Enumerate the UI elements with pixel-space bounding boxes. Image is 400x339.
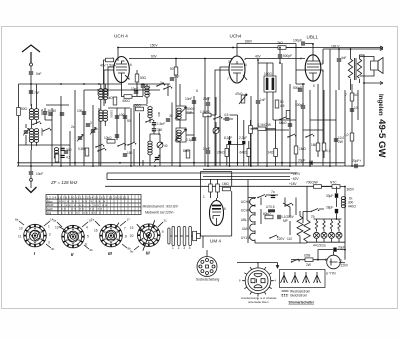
mains plug 220V [325,252,349,276]
svg-text:20kΩ: 20kΩ [217,151,225,155]
coil osc4 [148,141,152,155]
switch right [305,134,314,138]
svg-text:7: 7 [227,77,229,81]
switch heater [257,195,278,199]
svg-text:1b: 1b [147,92,151,96]
svg-text:60V: 60V [151,55,158,59]
svg-text:2a: 2a [311,215,315,219]
svg-text:5: 5 [313,84,315,88]
svg-text:8,2μF: 8,2μF [224,136,232,140]
wire power loop [318,247,345,260]
svg-text:U YTN: U YTN [326,272,336,276]
svg-text:+18V: +18V [289,182,297,186]
wire chassis link [237,263,279,269]
legend gleichstrom [282,294,308,298]
switch 2a [303,209,324,224]
svg-text:4,5: 4,5 [224,113,229,117]
capacitor 7nF [29,90,40,95]
capacitor 20uF lower [330,246,345,252]
resistor 16k [311,143,320,151]
svg-text:8: 8 [196,89,198,93]
svg-text:50: 50 [127,119,131,123]
svg-text:47kΩ: 47kΩ [235,92,243,96]
svg-text:20000: 20000 [40,128,44,136]
svg-text:7a: 7a [271,190,275,194]
capacitor det2 [288,123,292,126]
wire 188V line [237,43,296,45]
wires det extra [208,97,276,167]
capacitor 28uF [326,206,338,220]
capacitor 10nF if line [185,97,196,104]
resistor 0.1M W [258,123,271,131]
svg-text:10nF: 10nF [203,147,210,151]
capacitor 10nF det [203,147,210,154]
resistor 4k [107,96,117,105]
svg-text:ZF = 128 kHz: ZF = 128 kHz [50,180,78,185]
svg-text:10nF: 10nF [185,97,192,101]
svg-text:33μF: 33μF [326,194,333,198]
svg-text:2: 2 [325,258,327,262]
svg-text:1,5MΩ: 1,5MΩ [200,110,210,114]
svg-text:Meßwerte bei 220V~: Meßwerte bei 220V~ [145,211,175,215]
svg-text:Rot: Rot [47,211,52,215]
svg-text:440Ω: 440Ω [348,205,356,209]
resistor 1M b [286,111,290,119]
svg-text:2,2μF: 2,2μF [239,136,247,140]
resistor 50 4.5 [275,100,284,108]
rotary switch III [94,223,127,257]
svg-text:Meßinstrument : 833 Ω/V: Meßinstrument : 833 Ω/V [143,205,179,209]
capacitor 3pF bottom [60,148,68,152]
svg-text:−62V: −62V [291,177,299,181]
resistor 50 ohm plate [135,70,146,96]
capacitor 33uF [326,187,338,208]
svg-text:4kΩ: 4kΩ [107,96,113,100]
svg-text:6.: 6. [340,259,343,263]
pot volume [213,128,219,134]
svg-text:1: 1 [203,195,205,199]
resistor um4 b [216,179,220,198]
choke Dr 300 440 [341,197,356,209]
resistor 1.5M horizontal [200,110,216,117]
svg-text:unterseite löten: unterseite löten [248,300,269,304]
capacitor 50pF mix [123,115,131,123]
label 365V [345,187,355,248]
capacitor 500pF top [278,48,292,64]
svg-text:3: 3 [48,241,50,245]
rotary switch leader annotations [19,221,163,250]
svg-text:1: 1 [172,246,174,250]
heater chain [241,198,255,244]
svg-text:U70,5: U70,5 [266,205,275,209]
capacitor 1.5nF [152,122,165,126]
coil mixer1 primary and secondary [99,84,108,110]
ground with 10nF [26,166,44,193]
svg-text:7: 7 [300,57,302,61]
svg-text:64kΩ: 64kΩ [240,151,248,155]
svg-text:10nF: 10nF [36,172,43,176]
main chassis buses [17,165,364,167]
svg-text:UY1N: UY1N [241,236,250,240]
rotary switch I [18,224,51,256]
svg-text:500pF: 500pF [293,86,302,90]
svg-text:16: 16 [94,229,98,233]
svg-text:20μF: 20μF [338,246,345,250]
right column resistors [345,84,358,166]
urdox resistor [266,205,275,212]
trimmer mixer2 [77,134,83,141]
svg-text:20: 20 [130,234,134,238]
resistor 7k right [345,93,359,101]
svg-text:30: 30 [48,109,52,113]
svg-text:17: 17 [127,218,131,222]
svg-text:500pF: 500pF [283,54,292,58]
capacitor 100pF mixer2 [77,109,86,115]
switch osc low [127,142,136,146]
svg-text:−187V: −187V [291,172,301,176]
wire 60V line [129,55,305,59]
svg-text:7a: 7a [91,218,95,222]
svg-text:3: 3 [228,60,230,64]
IF transformer 2 [264,72,276,92]
IF coil lower [175,128,187,142]
capacitor 8.2uF [224,136,232,166]
svg-text:100Ω: 100Ω [264,72,272,76]
mid right mesh [303,84,336,166]
svg-text:11: 11 [18,235,22,239]
output transformer [348,49,364,90]
capacitor 62 row [60,112,64,115]
svg-text:7: 7 [345,93,347,97]
cam shaft [168,227,201,251]
wire antenna bus [19,83,171,85]
tube UBL1 [300,35,324,89]
svg-text:3000: 3000 [157,129,161,136]
svg-text:2c: 2c [71,125,75,129]
svg-text:U5B: U5B [304,254,310,258]
svg-text:700Ω/W: 700Ω/W [306,181,318,185]
svg-text:50: 50 [68,148,72,152]
antenna [22,45,40,71]
svg-text:9b: 9b [130,250,134,254]
tube UCH4 no1 [112,34,132,83]
capacitor 30pF osc [166,114,173,122]
resistor 20k [217,149,229,157]
svg-text:2kΩ: 2kΩ [277,41,283,45]
capacitor 25nF [203,97,210,115]
svg-text:2W: 2W [306,263,311,267]
coil osc3 [148,107,152,118]
resistor 64k [240,149,251,157]
capacitor 30pF [43,108,51,120]
svg-text:25nF: 25nF [203,97,210,101]
capacitor 20uF right top [352,159,364,168]
detector mesh [251,63,296,166]
svg-text:14Ω: 14Ω [268,151,275,155]
svg-text:UM 4: UM 4 [210,239,221,244]
wire grid left tube1 [104,67,114,106]
svg-text:4nF: 4nF [341,56,347,60]
UM4 magic eye [201,172,232,249]
trimmer mix [90,127,96,134]
svg-text:0,1μF: 0,1μF [186,138,194,142]
svg-text:4: 4 [128,77,130,81]
capacitor 100pF low [295,103,305,109]
svg-text:NTC: NTC [330,181,337,185]
resistor grid stopper tube1 [104,58,115,84]
switch S2 [117,143,126,147]
svg-text:4,5: 4,5 [66,156,71,160]
resistor 50 top if [170,59,178,107]
capacitor 10uF right [334,136,345,144]
capacitor 0.1uF tube1 [141,83,151,96]
svg-text:2: 2 [49,233,51,237]
fuse U5B [291,254,327,268]
capacitor bottom left2 [64,148,72,154]
svg-text:10nF: 10nF [131,87,138,91]
capacitor 4nF [337,49,347,90]
svg-text:2: 2 [178,246,180,250]
capacitor 2.2uF [239,136,247,166]
svg-text:2W: 2W [338,140,343,144]
svg-text:1,0: 1,0 [344,133,349,137]
wire bottom left mesh [19,96,71,166]
potentiometer 47k [235,92,247,104]
svg-text:5nF: 5nF [36,72,42,76]
switch S4 [163,86,172,90]
socket diagram [197,250,217,277]
svg-text:3: 3 [183,246,185,250]
trimmer osc [154,155,160,162]
svg-text:150V: 150V [150,44,158,48]
svg-text:6: 6 [245,63,247,67]
svg-text:20μF+: 20μF+ [352,159,361,163]
switch S1a [42,128,51,132]
svg-text:365V: 365V [347,188,355,192]
svg-text:5a: 5a [53,219,57,223]
svg-text:10: 10 [354,106,358,110]
capacitor 0.1 250V MP [277,215,294,223]
trimmer table [46,195,141,216]
coil L2 primary and secondary [29,129,38,150]
svg-text:4: 4 [189,246,191,250]
svg-text:2000: 2000 [96,89,100,96]
svg-text:UCh4: UCh4 [230,34,242,39]
svg-text:13: 13 [55,226,59,230]
capacitor 100pF ubl [293,39,313,85]
rotary switch IV [130,220,164,256]
svg-text:1,5nF: 1,5nF [157,122,165,126]
svg-text:16k: 16k [311,143,317,147]
capacitor 100pF mix [115,113,125,119]
legend wechselstrom [282,290,311,294]
svg-text:UCH4: UCH4 [241,200,250,204]
switch heater2 [284,203,293,207]
resistor 2M vertical [249,126,261,134]
resistor 14 ohm [268,149,278,157]
svg-text:110: 110 [287,237,292,241]
capacitor 7a [271,190,275,198]
switch det [287,134,296,138]
wire line 169 [203,168,290,170]
svg-text:UCH 4: UCH 4 [114,34,128,39]
svg-text:UBL1: UBL1 [307,35,319,40]
resistor 8k [183,149,190,158]
svg-text:1nF: 1nF [174,75,180,79]
wire grid tube2 [205,59,245,167]
svg-text:50: 50 [53,109,57,113]
label 183V [313,45,383,51]
wire 150V line [118,44,383,57]
resistor 0.3M [322,143,330,153]
svg-text:3b: 3b [51,247,55,251]
svg-text:6: 6 [130,63,132,67]
svg-text:8a: 8a [15,218,19,222]
wire arrow line 83 [364,82,383,85]
svg-text:Gleichstrom: Gleichstrom [290,294,307,298]
svg-text:188V: 188V [245,39,253,43]
svg-text:50Ω: 50Ω [21,107,28,111]
svg-text:4×0,5/2a: 4×0,5/2a [313,244,326,248]
switch left column [95,144,104,148]
switch S3 [156,83,165,87]
svg-text:1: 1 [48,225,50,229]
capacitor 4.5pF bottom [60,155,70,160]
IF transformer 1 [175,106,195,120]
svg-text:4: 4 [86,226,88,230]
capacitor 1nF det [256,60,266,166]
svg-text:7: 7 [124,227,126,231]
svg-text:8: 8 [125,235,127,239]
svg-text:3: 3 [90,121,92,125]
svg-text:21: 21 [164,219,168,223]
svg-text:6: 6 [224,207,226,211]
wire right bus [363,55,365,166]
capacitor mix2 [115,134,119,137]
coil L1 primary and secondary [29,84,38,128]
svg-text:10: 10 [19,227,23,231]
resistor NTC [322,181,346,189]
svg-text:Stromartschalter: Stromartschalter [289,301,315,305]
wire line 176.5 [203,177,299,181]
svg-text:400Ω: 400Ω [122,99,130,103]
resistor bottom left [55,154,59,162]
coil mixer2 primary and secondary [99,110,108,166]
svg-text:40: 40 [164,144,168,148]
capacitor 500pF low [293,86,302,92]
svg-text:6b: 6b [90,248,94,252]
svg-text:UCH4: UCH4 [241,209,250,213]
dial lamps [307,219,345,248]
capacitor 1nF osc [170,75,180,81]
switch mains [291,259,300,263]
wire heater top [248,180,256,198]
svg-text:30: 30 [169,114,173,118]
switch bottom left [97,148,106,152]
svg-text:× ×× × ×× ×× ×: × ×× × ×× ×× × [61,211,102,215]
svg-text:220V: 220V [341,264,349,268]
resistor 80k [263,212,273,219]
capacitor 5nF antenna [29,71,42,84]
capacitor 150pF [123,151,133,157]
capacitor 20uF bus [298,159,313,166]
capacitor right [350,106,358,112]
switch 220 [269,235,292,241]
svg-text:40V: 40V [255,55,262,59]
svg-text:150Ω: 150Ω [133,104,141,108]
resistor 400 ohm cathode [122,81,144,103]
svg-text:28μF: 28μF [326,206,333,210]
svg-text:5000: 5000 [40,109,44,116]
svg-text:150: 150 [127,151,133,155]
svg-text:183 V: 183 V [331,45,340,49]
mixer mesh x75-140 [46,90,160,166]
switch between coils [32,122,41,126]
svg-text:19: 19 [130,226,134,230]
trimmer circle osc [157,142,168,148]
wire left loop [19,84,24,145]
wire antenna down [30,84,32,106]
svg-text:5: 5 [87,235,89,239]
capacitor 750 [152,128,163,132]
svg-text:100: 100 [77,109,83,113]
svg-text:Sockelschaltung: Sockelschaltung [196,278,219,282]
resistor 1M um4 [222,182,231,191]
minus 187V line [107,172,301,180]
switch osc column [145,119,154,123]
svg-text:80kΩ: 80kΩ [263,212,271,216]
svg-text:0,3: 0,3 [326,149,331,153]
capacitor 50pF row [48,109,56,116]
rotary switch II [55,225,89,257]
coil bottom left [54,148,58,159]
svg-text:50Ω: 50Ω [140,76,147,80]
resistor det [294,146,306,154]
svg-text:3a: 3a [160,81,164,85]
tube UCH4 no2 [228,34,247,84]
resistor 150 ohm [133,104,144,167]
svg-text:4b: 4b [94,127,98,131]
svg-text:9: 9 [162,230,164,234]
power transformer zig [304,186,310,243]
switch det3 [213,116,222,120]
plus 18V line [105,182,334,186]
svg-text:100pF: 100pF [293,39,302,43]
resistor 700 ohm W [306,181,322,189]
resistor 50 ohm antenna [17,107,28,116]
svg-text:MP: MP [283,219,288,223]
transformer primary zigzag [297,211,303,243]
svg-text:900: 900 [157,112,161,117]
svg-text:1nF: 1nF [260,98,266,102]
resistor 0.5M left [78,147,89,156]
wire ubl grid [296,49,330,166]
svg-text:10kΩ: 10kΩ [104,136,112,140]
switch 66k [279,117,288,126]
capacitor 3nF mixer [86,121,92,127]
resistor 10k left [104,136,115,143]
resistor right2 [344,133,354,141]
heater mesh [248,198,307,244]
resistor 2k top [277,41,302,49]
oscillator block x140-200 [134,84,172,166]
resistor um4 a [209,179,213,198]
capacitor 0.1uF if [186,137,196,142]
junction dots main buses [30,43,365,261]
trimmer C left [23,124,29,145]
svg-text:20μF: 20μF [298,159,305,163]
mains switch box [280,270,326,288]
